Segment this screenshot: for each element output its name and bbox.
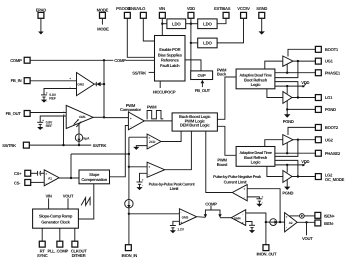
ground PGND (buck) [283,114,294,124]
svg-text:+: + [148,136,150,140]
wire A1 branch vertical [70,154,72,178]
current source ISEN+ [290,214,315,219]
regulator LDO1 [167,19,186,29]
op-amp GM4 [231,210,246,226]
svg-text:REF: REF [46,124,54,128]
block Buck-Boost Logic / PWM Logic / DEM Burst Logic [172,113,217,131]
pin COMP [10,57,30,63]
svg-text:PGND: PGND [282,191,293,196]
wire A2 to ISEN- [297,221,315,223]
svg-text:MODE: MODE [97,7,109,12]
op-amp GM2 [69,73,94,96]
wire VIN down to enable box top [161,18,163,35]
wire GM3 output [197,216,206,219]
waveform sawtooth [81,198,90,206]
wire negative peak plus input [247,189,280,222]
wire LG2 sense to box [275,160,298,176]
node VDD driver2 feed [286,164,288,166]
wire ramp to slope box [78,184,93,219]
pin UG2 [315,137,333,143]
node SS/TRK 5uA [78,144,80,146]
reference 1.2V (GM3) [170,221,185,233]
wire LG1 driver to PGND [286,101,288,115]
svg-text:-: - [130,124,131,128]
comparator pulse-by-pulse negative peak current limit [232,185,247,201]
svg-text:IMON_IN: IMON_IN [122,253,138,258]
driver UG2 [283,135,293,145]
wire FB_OUT to GM1 [30,112,66,114]
diode GM2 output [94,82,104,86]
svg-text:5µA: 5µA [83,136,90,140]
wire VCC5V to LDO3 output [217,18,243,43]
svg-text:Pulse-by-Pulse Negative Peak: Pulse-by-Pulse Negative Peak [213,174,262,179]
node ilim tap [128,166,130,168]
svg-text:+: + [142,178,144,182]
svg-text:DEM Burst Logic: DEM Burst Logic [180,123,211,128]
svg-text:VDD: VDD [187,6,195,11]
svg-text:Fault Latch: Fault Latch [160,63,180,68]
pin SS/TRK [2,142,29,148]
pin EPAD [36,7,46,34]
pin PGND [315,107,336,113]
pin VCC5V [237,6,250,18]
op-amp GM1 [63,105,93,128]
driver LG1 [283,92,292,104]
svg-text:ISEN-: ISEN- [324,221,335,226]
svg-text:+: + [46,91,48,95]
node UG2 sense [297,139,299,141]
wire GM4 output [220,217,231,219]
pin IMON_OUT [256,245,277,257]
svg-text:PLL_COMP: PLL_COMP [48,249,69,254]
svg-text:-: - [42,126,43,130]
trim arrows GM1 [74,119,82,127]
wire LDO1 out to VDD [186,23,191,25]
net HICCUPOCP stub [153,81,176,95]
wire driver2 input from logic box [265,140,283,147]
svg-text:VOUT: VOUT [302,236,313,241]
wire PGND [287,108,315,110]
svg-text:COMP: COMP [10,58,22,63]
wire A1 output [59,177,79,179]
wire GM4 upper input [246,213,266,245]
driver LG2 [283,171,292,183]
pin FB_IN [11,78,31,84]
node VOUT tap [305,221,307,223]
node VDD-LDO3 [190,42,192,44]
svg-text:BOOT1: BOOT1 [325,47,339,52]
wire UG2 [293,139,315,141]
svg-text:1.2V: 1.2V [177,227,184,231]
svg-text:SS/TRK: SS/TRK [93,143,107,148]
net label VOUT [302,222,313,241]
svg-text:COMP: COMP [205,201,217,206]
wire ZCD plus feed [129,136,147,138]
wire PGOOD to enable box [127,18,154,57]
svg-text:+: + [242,221,244,225]
op-amp A1 [44,170,59,186]
svg-text:-: - [142,183,143,187]
svg-text:-: - [244,196,245,200]
wire COMP vertical net [103,60,105,117]
pin PHASE1 [315,70,341,76]
wire FB_IN to GM2 [30,80,76,82]
supply VDD rail (buck driver) [275,80,310,87]
wire COMP label to enable box [126,59,155,61]
svg-text:UG2: UG2 [325,137,334,142]
driver UG1 [283,56,293,66]
wire EN/UVLO to enable box [143,18,154,41]
svg-text:SGND: SGND [256,6,267,11]
svg-text:Compensation: Compensation [81,177,107,182]
wire CS- to A1 [31,181,45,183]
svg-text:-: - [149,144,150,148]
wire VIN to LDO1 [162,23,167,25]
clamp COMP rail [204,201,222,217]
svg-text:PHASE2: PHASE2 [325,151,341,156]
wire VDD to LG driver [286,86,288,94]
svg-text:EXTBIAS: EXTBIAS [214,6,231,11]
node UG1 sense [297,60,299,62]
svg-text:A2: A2 [289,221,293,225]
svg-text:+: + [243,187,245,191]
wire PHASE2 [275,152,316,154]
node slope sum [128,153,130,155]
svg-text:VIN: VIN [159,6,165,11]
pin CS- [14,180,31,186]
node GM2 diode to COMP [103,83,105,85]
wire UG1 sense to box [275,61,298,78]
node IMON_IN tap [128,213,130,215]
wire UG1 [293,60,315,62]
waveform PWM pulses [147,105,164,119]
svg-text:COMP: COMP [114,58,126,63]
svg-text:GM3: GM3 [182,215,189,219]
svg-text:GM2: GM2 [77,83,84,87]
block Slope-Comp Ramp Generator Clock [33,209,79,228]
node LG2 sense [297,175,299,177]
pin LG2/OC_MODE [315,172,344,182]
ground ZCD minus [133,146,147,150]
svg-text:Limit: Limit [170,186,180,191]
svg-text:LG1: LG1 [325,95,333,100]
svg-text:CS-: CS- [14,180,21,185]
svg-text:IMON_OUT: IMON_OUT [256,252,277,257]
pin PLL_COMP [48,228,69,253]
net label SS/TRK (enable box) [132,70,154,75]
svg-text:SS/TRK: SS/TRK [132,70,146,75]
wire GM1 plus input to SS/TRK [63,116,65,145]
label VIN (ramp gen) [46,194,52,209]
node LG1 sense [297,96,299,98]
wire COMP line [30,59,113,61]
pin UG1 [315,58,333,64]
wire VDD vertical down to OVP corner [190,18,192,71]
block Slope Compensation [79,170,110,184]
block Adaptive Dead Time (buck) [236,69,275,89]
svg-text:GM1: GM1 [79,115,86,119]
wire BOOT1 to driver [288,49,315,56]
wire COMP node to PWM comparator [104,117,128,119]
wire VDD to LDO2 [191,23,198,25]
svg-text:REF: REF [49,97,57,101]
pin PHASE2 [315,150,341,156]
wire driver return [286,64,288,73]
label pulse-by-pulse peak current limit [149,182,196,191]
svg-text:ISEN+: ISEN+ [324,213,336,218]
wire EXTBIAS to LDO2 [217,18,226,23]
svg-text:FB_OUT: FB_OUT [6,111,22,116]
svg-text:+: + [286,215,288,219]
svg-text:+: + [45,172,47,176]
svg-text:-: - [286,226,287,230]
wire VDD to LG2 driver [286,165,288,173]
svg-text:Buck: Buck [217,72,227,77]
svg-text:PHASE1: PHASE1 [325,70,341,75]
wire driver2 return [286,143,288,153]
pin EXTBIAS [214,6,231,18]
svg-text:FB_IN: FB_IN [11,78,22,83]
op-amp GM3 [179,209,196,225]
node A1 out branch [70,177,72,179]
wire BOOT2 to driver [288,127,315,135]
svg-text:+: + [262,195,264,199]
svg-text:PGND: PGND [283,119,294,124]
svg-text:LDO: LDO [203,21,212,26]
filter cap CS+ [31,171,45,176]
svg-text:-: - [149,172,150,176]
wire SS/TRK line [29,144,91,146]
node PHASE1 driver return [286,72,288,74]
pin CLKOUT/DITHER [71,228,87,258]
pin ISEN+ [315,212,336,218]
svg-text:PGND: PGND [325,107,336,112]
pin RT/SYNC [37,228,48,258]
svg-text:+: + [148,165,150,169]
svg-text:-: - [181,211,182,215]
node PHASE2 driver return [286,152,288,154]
wire PWM comparator output [144,120,172,122]
net FB_OUT arrow into OVP [195,80,211,93]
svg-text:Boost: Boost [217,162,228,167]
pin IMON_IN [122,245,138,258]
svg-text:Logic: Logic [251,160,262,165]
block Enable POR / Bias Supplies / Reference / Fault Latch [155,36,186,82]
pin BOOT1 [315,46,338,52]
reference 0.8V REF (GM1) [37,116,66,130]
svg-text:BOOT2: BOOT2 [325,125,339,130]
reference 0.8V REF (GM2) [41,89,77,103]
svg-text:OVP: OVP [198,73,206,78]
wire enable box to OVP [185,60,201,71]
pin BOOT2 [315,125,338,131]
wire ILIM plus feed [129,166,147,168]
supply VDD rail (boost driver) [275,159,310,166]
pin MODE [97,7,109,31]
svg-text:CS+: CS+ [14,171,22,176]
wire LG2 [292,176,315,178]
svg-text:+: + [69,76,71,80]
reference GM4 [246,222,255,234]
node ISEN sense [279,221,281,223]
svg-text:Generator Clock: Generator Clock [41,219,70,224]
svg-text:VIN: VIN [46,194,52,199]
wire PWM Boost [217,126,236,155]
svg-text:Slope-Comp Ramp: Slope-Comp Ramp [39,214,73,219]
wire PWM comparator minus wrap [110,126,129,177]
label VOUT (ramp gen) [63,194,74,209]
label pulse-by-pulse negative peak current limit [213,174,262,184]
label PWM Buck [217,67,227,76]
svg-text:PWM: PWM [147,105,157,110]
svg-text:A1: A1 [48,176,52,180]
wire logic to negative peak comparator [206,131,233,192]
wire current sense vertical [128,137,130,200]
node IMON_OUT tap [265,221,267,223]
wire driver input from logic box [265,61,283,69]
pin CS+ [14,170,31,176]
wire UG2 sense to box [275,140,298,157]
pin ISEN- [315,220,335,226]
svg-text:LDO: LDO [172,21,181,26]
svg-text:LDO: LDO [203,41,212,46]
node COMP junction [103,59,105,61]
regulator LDO2 [198,19,217,29]
svg-text:HICCUPOCP: HICCUPOCP [153,90,176,95]
wire peak limit output to logic [165,131,192,170]
reference negative peak [247,195,263,207]
svg-text:VOUT: VOUT [63,194,74,199]
svg-text:+: + [42,119,44,123]
svg-text:VCC5V: VCC5V [237,6,250,11]
svg-text:GM4: GM4 [234,216,241,220]
pin PGOOD [116,6,130,18]
regulator LDO3 [198,38,217,48]
pin VIN [159,6,166,18]
label PWM Boost [217,158,228,167]
svg-text:-: - [262,200,263,204]
svg-text:-: - [242,212,243,216]
wire slope sum horizontal [71,153,129,155]
ground PGND (boost) [282,180,293,196]
current source IMON_IN [125,200,133,245]
svg-text:-: - [46,181,47,185]
wire LG2 driver input [267,166,283,176]
comparator PWM [120,103,144,130]
svg-text:Comparator: Comparator [120,107,142,112]
svg-text:DITHER: DITHER [72,253,86,258]
wire LG1 sense to box [275,82,298,98]
wire PHASE1 [275,72,316,74]
svg-text:+: + [130,116,132,120]
wire IMON_IN to GM3 [129,213,180,215]
comparator pulse-by-pulse peak current limit [147,162,165,177]
wire LG driver input [267,89,283,98]
node VDD-LDO1 [190,23,192,25]
wire LG1 [292,97,315,99]
svg-text:SYNC: SYNC [37,253,48,258]
svg-text:OC_MODE: OC_MODE [325,177,345,182]
comparator ZCD [147,134,161,149]
reference peak limit [136,173,147,190]
wire ZCD output to logic [161,131,181,141]
wire VDD to LDO3 input [191,42,198,44]
current source 5uA [75,124,90,146]
pin SGND [256,6,267,35]
svg-text:-: - [46,99,47,103]
svg-text:Logic: Logic [251,82,262,87]
pin LG1 [315,95,333,101]
current source IMON_OUT [266,219,285,226]
pin FB_OUT [6,111,31,117]
svg-text:+: + [180,220,182,224]
svg-text:UG1: UG1 [325,59,334,64]
pin EN/UVLO [128,6,146,18]
comparator OVP box [191,71,213,80]
pin VDD [187,6,195,18]
block Adaptive Dead Time (boost) [236,147,275,167]
svg-text:EPAD: EPAD [36,7,46,12]
wire GM1 output to COMP node [93,116,104,118]
svg-text:MODE: MODE [97,27,109,32]
svg-text:ZCD: ZCD [149,140,156,144]
op-amp A2 [285,213,298,232]
node GM1 out [103,116,105,118]
svg-text:EN/UVLO: EN/UVLO [128,6,146,11]
node VIN-LDO junction [161,23,163,25]
node VDD driver feed [286,85,288,87]
wire PWM Buck [217,77,236,119]
node SS/TRK GM1 branch [62,144,64,146]
svg-text:SS/TRK: SS/TRK [2,143,16,148]
svg-text:Current Limit: Current Limit [224,179,248,184]
svg-text:FB_OUT: FB_OUT [195,88,211,93]
